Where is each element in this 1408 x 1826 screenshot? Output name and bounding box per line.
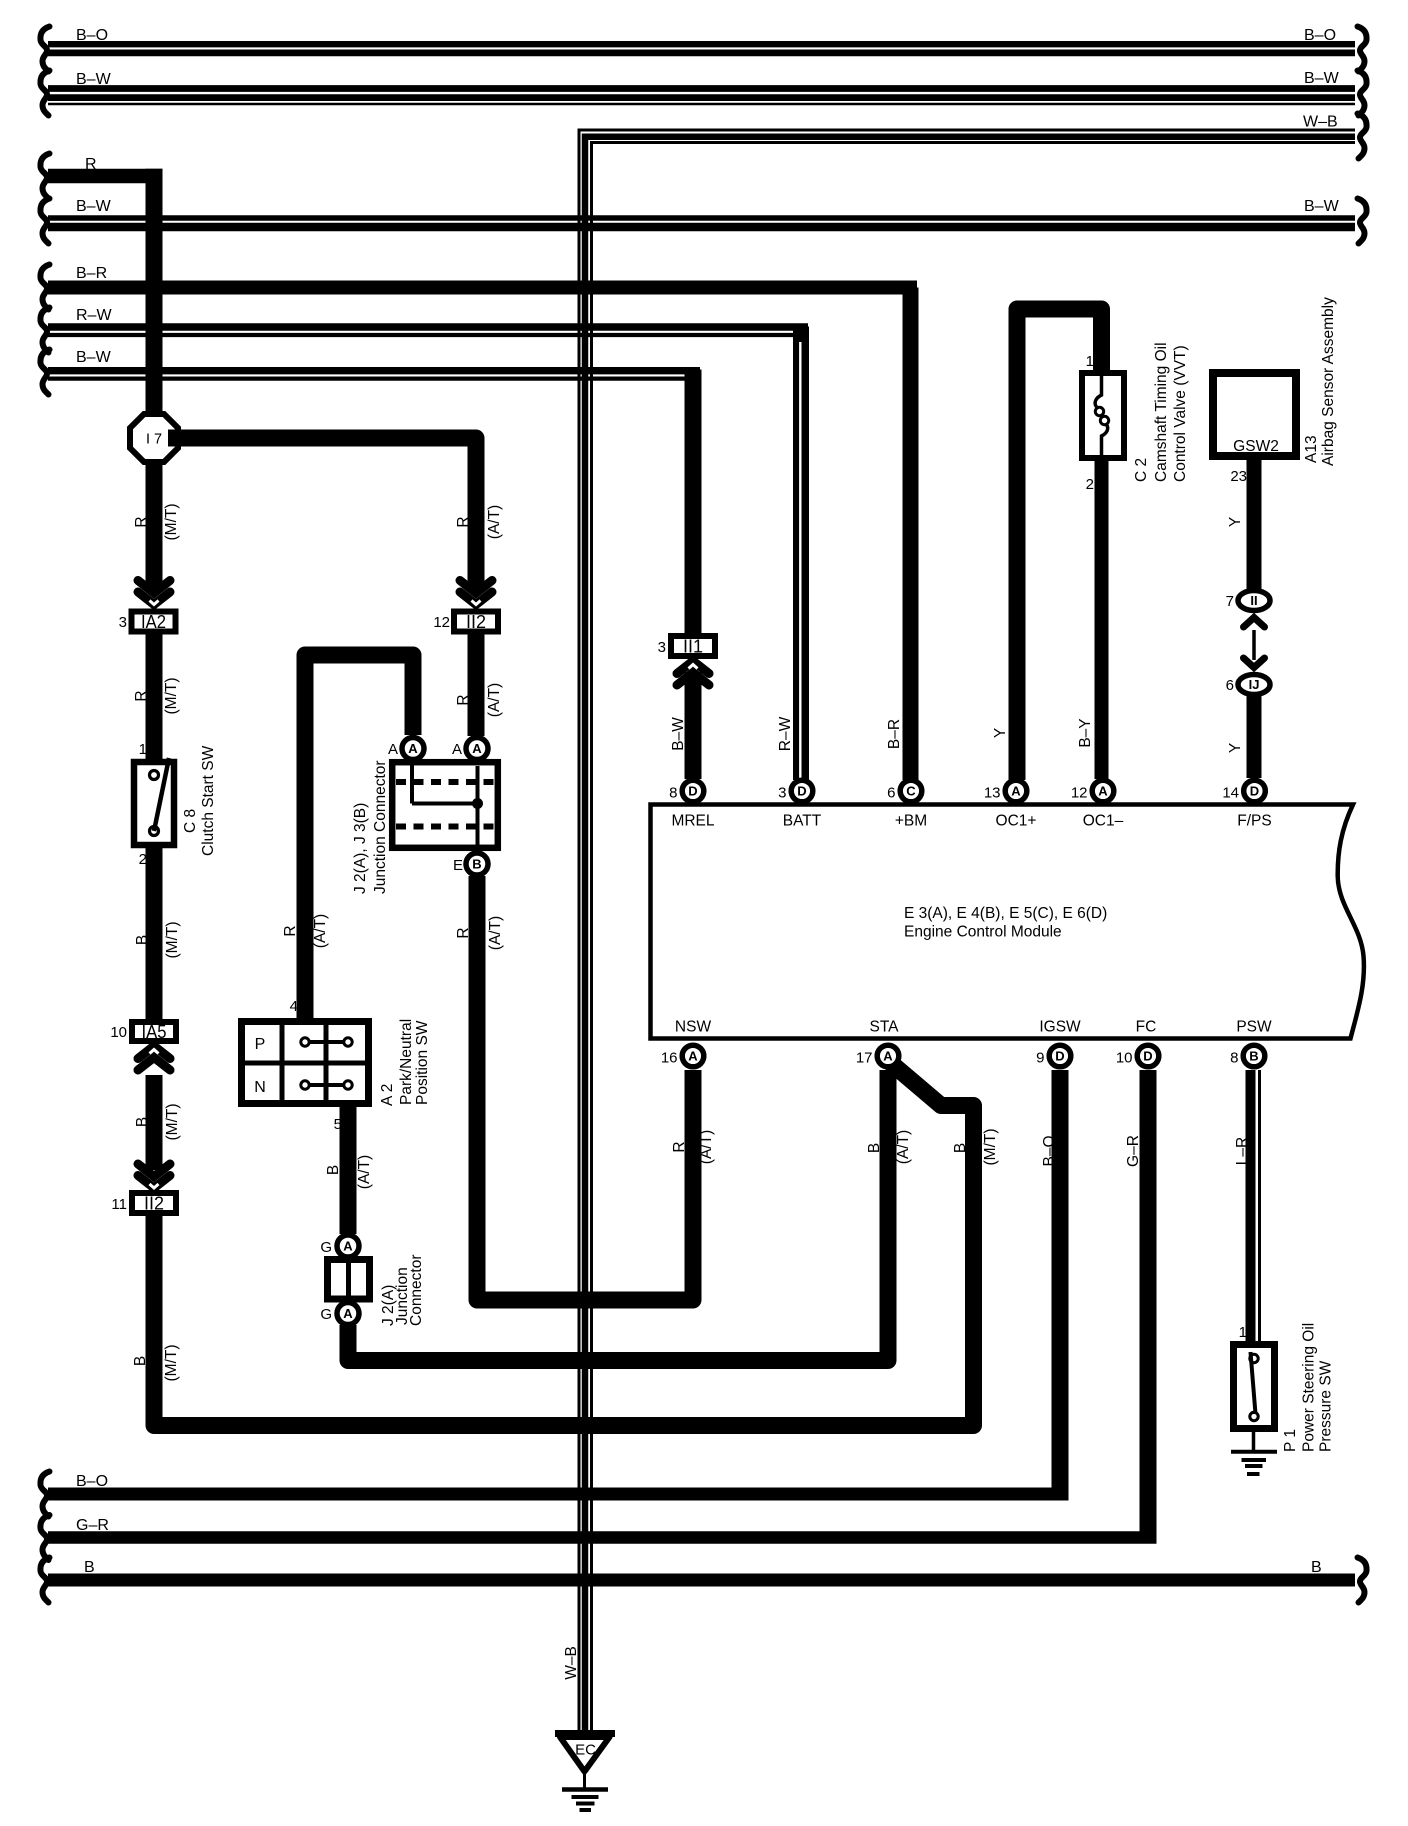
svg-text:(A/T): (A/T) bbox=[486, 505, 503, 539]
svg-text:10: 10 bbox=[110, 1024, 127, 1041]
node E(B) junction connector output bbox=[466, 853, 488, 875]
svg-text:D: D bbox=[1055, 1049, 1064, 1064]
svg-text:R: R bbox=[455, 516, 472, 527]
svg-text:23: 23 bbox=[1230, 468, 1247, 485]
svg-text:PSW: PSW bbox=[1236, 1019, 1272, 1036]
svg-text:G: G bbox=[320, 1306, 332, 1323]
svg-text:N: N bbox=[254, 1079, 266, 1096]
svg-text:12: 12 bbox=[433, 614, 450, 631]
connector arrows II to IJ bbox=[1244, 618, 1265, 668]
svg-text:+BM: +BM bbox=[895, 813, 927, 830]
svg-text:(M/T): (M/T) bbox=[164, 1103, 181, 1140]
wire B-R bus to ECM pin +BM bbox=[40, 265, 917, 781]
label Clutch Start SW bbox=[200, 745, 217, 856]
svg-text:G–R: G–R bbox=[76, 1517, 109, 1534]
switch C8 clutch start SW bbox=[134, 758, 174, 845]
svg-text:A13: A13 bbox=[1303, 435, 1320, 463]
svg-text:9: 9 bbox=[1036, 1050, 1044, 1067]
label 6 bbox=[1226, 677, 1234, 694]
label pin 1 (C8) bbox=[139, 741, 147, 758]
label pin 2 (C2) bbox=[1086, 476, 1094, 493]
svg-text:A: A bbox=[1098, 784, 1108, 799]
svg-text:IA2: IA2 bbox=[141, 612, 166, 632]
svg-text:(M/T): (M/T) bbox=[163, 503, 180, 540]
label A (right) bbox=[452, 741, 462, 758]
svg-text:B: B bbox=[132, 1356, 149, 1366]
wire B-W bus (top) bbox=[40, 70, 1366, 116]
svg-text:B–W: B–W bbox=[1304, 198, 1340, 215]
wire IA2 to clutch start switch (R M/T) bbox=[133, 635, 180, 763]
connector II2 (pin 12) bbox=[454, 612, 498, 633]
svg-text:E 3(A), E 4(B), E 5(C), E 6(D): E 3(A), E 4(B), E 5(C), E 6(D) bbox=[904, 905, 1107, 922]
label Airbag Sensor Assembly bbox=[1320, 297, 1337, 466]
svg-text:17: 17 bbox=[856, 1050, 873, 1067]
switch A2 park/neutral position SW bbox=[240, 1021, 370, 1104]
connector arrows into IA2 bbox=[138, 581, 170, 605]
svg-text:B: B bbox=[1249, 1049, 1258, 1064]
svg-text:OC1+: OC1+ bbox=[996, 813, 1037, 830]
label Pressure SW bbox=[1318, 1360, 1335, 1452]
svg-text:Clutch Start SW: Clutch Start SW bbox=[200, 745, 217, 856]
pin 12(A) OC1– bbox=[1071, 780, 1124, 829]
svg-text:R: R bbox=[133, 690, 150, 701]
svg-text:R: R bbox=[282, 925, 299, 936]
svg-text:1: 1 bbox=[1086, 353, 1094, 370]
svg-text:6: 6 bbox=[1226, 677, 1234, 694]
svg-text:3: 3 bbox=[119, 614, 127, 631]
wire B-O bus (top) bbox=[40, 27, 1366, 72]
svg-text:A: A bbox=[883, 1049, 893, 1064]
wire junction connector to ECM pin STA (B A/T) bbox=[348, 1070, 912, 1361]
wire W-B bus to EC ground bbox=[579, 114, 1367, 1734]
svg-text:B–W: B–W bbox=[670, 717, 687, 751]
node A left (junction connector J2/J3) bbox=[402, 738, 424, 760]
svg-text:MREL: MREL bbox=[671, 813, 714, 830]
svg-text:B–Y: B–Y bbox=[1077, 718, 1094, 747]
svg-text:11: 11 bbox=[111, 1196, 127, 1213]
pin 17(A) STA bbox=[856, 1019, 899, 1067]
svg-text:B: B bbox=[84, 1559, 95, 1576]
pin 16(A) NSW bbox=[661, 1019, 712, 1067]
svg-text:(A/T): (A/T) bbox=[895, 1130, 912, 1164]
svg-text:R: R bbox=[133, 516, 150, 527]
svg-text:D: D bbox=[797, 784, 806, 799]
label pin 1 (C2) bbox=[1086, 353, 1094, 370]
svg-text:B–R: B–R bbox=[76, 265, 107, 282]
svg-text:8: 8 bbox=[1230, 1050, 1238, 1067]
wire ECM pin IGSW to B-O bus bbox=[40, 1070, 1068, 1517]
svg-text:6: 6 bbox=[887, 785, 895, 802]
svg-text:B: B bbox=[952, 1143, 969, 1153]
label 3 bbox=[119, 614, 127, 631]
connector IA2 (pin 3) bbox=[132, 612, 176, 633]
svg-text:Position SW: Position SW bbox=[414, 1020, 431, 1105]
connector arrows into II2-12 bbox=[460, 581, 492, 605]
label Junction Connector (J2/J3) bbox=[372, 760, 389, 894]
connector IA5 (pin 10) bbox=[132, 1022, 176, 1042]
svg-text:10: 10 bbox=[1116, 1050, 1133, 1067]
svg-text:A: A bbox=[408, 741, 418, 756]
svg-text:EC: EC bbox=[575, 1742, 596, 1759]
svg-text:Y: Y bbox=[1227, 743, 1244, 753]
svg-text:R: R bbox=[671, 1141, 688, 1152]
svg-text:(A/T): (A/T) bbox=[487, 916, 504, 950]
pin 6(C) +BM bbox=[887, 780, 927, 829]
label Power Steering Oil bbox=[1301, 1323, 1318, 1452]
label E bbox=[453, 857, 463, 874]
svg-text:(A/T): (A/T) bbox=[698, 1130, 715, 1164]
svg-text:IJ: IJ bbox=[1249, 677, 1260, 692]
svg-text:(M/T): (M/T) bbox=[982, 1128, 999, 1165]
wire II2-11 to ECM pin STA (B M/T) bbox=[132, 1063, 999, 1426]
svg-text:(M/T): (M/T) bbox=[164, 921, 181, 958]
label C 8 bbox=[182, 809, 199, 833]
label C 2 bbox=[1133, 458, 1150, 482]
label pin 2 (C8) bbox=[139, 851, 147, 868]
junction connector J2(A) J3(B) bbox=[392, 762, 498, 848]
svg-text:C: C bbox=[906, 784, 916, 799]
svg-text:P 1: P 1 bbox=[1282, 1429, 1299, 1452]
pin 9(D) IGSW bbox=[1036, 1019, 1081, 1067]
svg-text:B: B bbox=[134, 1117, 151, 1127]
svg-text:OC1–: OC1– bbox=[1083, 813, 1124, 830]
svg-text:D: D bbox=[1143, 1049, 1152, 1064]
svg-text:1: 1 bbox=[1239, 1324, 1247, 1341]
svg-text:D: D bbox=[688, 784, 697, 799]
wire valve C2 pin 2 to ECM pin OC1- (B-Y) bbox=[1077, 458, 1102, 779]
svg-text:C 8: C 8 bbox=[182, 809, 199, 833]
label J 2(A) small bbox=[380, 1285, 397, 1326]
svg-text:(A/T): (A/T) bbox=[486, 683, 503, 717]
connector II2 (pin 11) bbox=[132, 1193, 176, 1214]
svg-text:W–B: W–B bbox=[1303, 114, 1338, 131]
svg-text:A: A bbox=[343, 1306, 353, 1321]
svg-text:BATT: BATT bbox=[783, 813, 822, 830]
svg-text:C 2: C 2 bbox=[1133, 458, 1150, 482]
label 3 (II1) bbox=[658, 639, 666, 656]
label 12 bbox=[433, 614, 450, 631]
svg-text:A: A bbox=[472, 741, 482, 756]
switch P1 power steering oil pressure SW bbox=[1234, 1345, 1275, 1429]
label J 2(A), J 3(B) bbox=[352, 803, 369, 894]
svg-text:A: A bbox=[1011, 784, 1021, 799]
pin 14(D) F/PS bbox=[1222, 780, 1271, 829]
label A13 bbox=[1303, 435, 1320, 463]
svg-text:B–O: B–O bbox=[76, 1473, 108, 1490]
svg-text:Airbag Sensor Assembly: Airbag Sensor Assembly bbox=[1320, 297, 1337, 466]
svg-text:G: G bbox=[320, 1239, 332, 1256]
label Park/Neutral Position SW bbox=[398, 1019, 431, 1105]
svg-text:(A/T): (A/T) bbox=[312, 914, 329, 948]
svg-text:D: D bbox=[1250, 784, 1259, 799]
svg-text:II: II bbox=[1250, 593, 1257, 608]
label 11 bbox=[111, 1196, 127, 1213]
svg-text:B–W: B–W bbox=[76, 198, 112, 215]
pin 3(D) BATT bbox=[778, 780, 822, 829]
svg-text:A: A bbox=[388, 741, 398, 758]
label A 2 bbox=[379, 1084, 396, 1106]
connector II1 (pin 3) bbox=[671, 636, 715, 657]
svg-text:STA: STA bbox=[870, 1019, 900, 1036]
box GSW2 A13 airbag sensor assembly bbox=[1213, 373, 1296, 456]
ground EC bbox=[555, 1734, 615, 1811]
svg-text:B: B bbox=[134, 935, 151, 945]
svg-text:II1: II1 bbox=[683, 637, 703, 657]
wire II1 to ECM pin MREL (B-W) bbox=[670, 672, 693, 779]
svg-text:(A/T): (A/T) bbox=[356, 1155, 373, 1189]
svg-text:B: B bbox=[866, 1143, 883, 1153]
wire A2 pin 5 to junction connector J2(A) (B A/T) bbox=[325, 1104, 373, 1234]
wire E(B) to ECM pin NSW (R A/T) bbox=[455, 876, 715, 1300]
label G (bottom) bbox=[320, 1306, 332, 1323]
svg-text:L–R: L–R bbox=[1234, 1137, 1251, 1165]
svg-text:A 2: A 2 bbox=[379, 1084, 396, 1106]
wire ECM pin OC1+ to valve C2 pin 1 (Y) bbox=[992, 309, 1102, 780]
wire R-W bus to ECM pin BATT bbox=[40, 307, 808, 780]
svg-text:J 2(A), J 3(B): J 2(A), J 3(B) bbox=[352, 803, 369, 894]
label 10 bbox=[110, 1024, 127, 1041]
svg-text:B–O: B–O bbox=[1041, 1135, 1058, 1166]
svg-text:(M/T): (M/T) bbox=[163, 677, 180, 714]
svg-text:Park/Neutral: Park/Neutral bbox=[398, 1019, 415, 1105]
svg-text:3: 3 bbox=[658, 639, 666, 656]
svg-text:II2: II2 bbox=[144, 1194, 164, 1214]
pin 8(B) PSW bbox=[1230, 1019, 1272, 1067]
svg-text:B–O: B–O bbox=[1304, 27, 1336, 44]
wire park/neutral SW pin 4 to junction connector pin A (R A/T) bbox=[282, 655, 413, 1020]
svg-text:FC: FC bbox=[1136, 1019, 1157, 1036]
svg-text:P: P bbox=[255, 1036, 266, 1053]
connector arrows IA5 to II2-11 (B M/T) bbox=[134, 1046, 181, 1188]
label G (top) bbox=[320, 1239, 332, 1256]
svg-text:Junction Connector: Junction Connector bbox=[372, 760, 389, 894]
node I7 (octagon junction) bbox=[130, 414, 178, 462]
svg-text:A: A bbox=[688, 1049, 698, 1064]
label Camshaft Timing Oil bbox=[1153, 342, 1170, 482]
svg-text:14: 14 bbox=[1222, 785, 1239, 802]
node G(A) bottom of small junction connector bbox=[337, 1303, 359, 1325]
svg-text:NSW: NSW bbox=[675, 1019, 712, 1036]
label W-B (vertical run) bbox=[563, 1646, 580, 1680]
wire B bus (bottom) bbox=[40, 1558, 1366, 1603]
svg-text:Y: Y bbox=[992, 728, 1009, 738]
wire B-W bus (second) bbox=[40, 198, 1366, 244]
node A right (junction connector J2/J3) bbox=[466, 738, 488, 760]
svg-text:G–R: G–R bbox=[1125, 1135, 1142, 1167]
label R-W (BATT wire) bbox=[777, 716, 794, 751]
wire GSW2 to connector II (Y) bbox=[1227, 458, 1254, 591]
wire B-W bus (third) to connector II1 bbox=[40, 349, 700, 635]
wire R bus feed to node I7 bbox=[40, 154, 162, 417]
svg-text:7: 7 bbox=[1226, 593, 1234, 610]
svg-text:GSW2: GSW2 bbox=[1233, 438, 1279, 455]
pin 8(D) MREL bbox=[669, 780, 715, 829]
solenoid C2 camshaft timing oil control valve (VVT) bbox=[1082, 373, 1124, 458]
wire ECM pin FC to G-R bus bbox=[40, 1070, 1156, 1560]
label Junction Connector (small) bbox=[394, 1254, 425, 1326]
wire C8 to connector IA5 (B M/T) bbox=[134, 845, 181, 1021]
pin 13(A) OC1+ bbox=[984, 780, 1037, 829]
wire I7 to connector II2-12 (R A/T) bbox=[168, 438, 503, 592]
connector IJ (pin 6) oval bbox=[1238, 675, 1270, 695]
svg-text:(M/T): (M/T) bbox=[163, 1344, 180, 1381]
svg-text:R–W: R–W bbox=[777, 716, 794, 751]
label pin 1 (P1) bbox=[1239, 1324, 1247, 1341]
svg-text:A: A bbox=[343, 1239, 353, 1254]
svg-text:Y: Y bbox=[1227, 517, 1244, 527]
node G(A) top of small junction connector bbox=[337, 1235, 359, 1257]
svg-text:F/PS: F/PS bbox=[1237, 813, 1271, 830]
svg-text:I 7: I 7 bbox=[146, 432, 162, 448]
svg-text:2: 2 bbox=[1086, 476, 1094, 493]
svg-text:Power Steering Oil: Power Steering Oil bbox=[1301, 1323, 1318, 1452]
svg-text:12: 12 bbox=[1071, 785, 1088, 802]
wire II2-12 to junction connector pin A (R A/T) bbox=[455, 635, 503, 737]
svg-text:B–R: B–R bbox=[886, 719, 903, 749]
svg-text:B: B bbox=[325, 1165, 342, 1175]
svg-text:3: 3 bbox=[778, 785, 786, 802]
svg-text:IGSW: IGSW bbox=[1039, 1019, 1081, 1036]
label pin 23 (A13) bbox=[1230, 468, 1247, 485]
svg-text:B–W: B–W bbox=[1304, 70, 1340, 87]
junction connector J2(A) small bbox=[328, 1258, 370, 1300]
svg-text:B: B bbox=[472, 857, 481, 872]
svg-text:Pressure SW: Pressure SW bbox=[1318, 1360, 1335, 1452]
connector arrows into II1 bbox=[677, 661, 709, 685]
svg-text:B–W: B–W bbox=[76, 71, 112, 88]
svg-text:16: 16 bbox=[661, 1050, 678, 1067]
svg-text:4: 4 bbox=[290, 998, 298, 1015]
svg-text:Control Valve (VVT): Control Valve (VVT) bbox=[1172, 345, 1189, 482]
ground (P1) bbox=[1231, 1428, 1277, 1474]
svg-text:R: R bbox=[85, 156, 97, 173]
svg-text:B–O: B–O bbox=[76, 27, 108, 44]
svg-text:E: E bbox=[453, 857, 463, 874]
svg-text:IA5: IA5 bbox=[142, 1022, 167, 1042]
wire IJ to ECM pin F/PS (Y) bbox=[1227, 694, 1254, 778]
svg-text:A: A bbox=[452, 741, 462, 758]
pin 10(D) FC bbox=[1116, 1019, 1159, 1067]
svg-text:II2: II2 bbox=[466, 612, 486, 632]
svg-text:R: R bbox=[455, 927, 472, 938]
connector II (pin 7) oval bbox=[1238, 591, 1270, 611]
svg-text:R–W: R–W bbox=[76, 307, 112, 324]
label P 1 bbox=[1282, 1429, 1299, 1452]
svg-text:Connector: Connector bbox=[408, 1254, 425, 1326]
svg-text:13: 13 bbox=[984, 785, 1001, 802]
label B-R (+BM wire) bbox=[886, 719, 903, 749]
svg-text:W–B: W–B bbox=[563, 1646, 580, 1680]
IC engine control module E3(A) E4(B) E5(C) E6(D) bbox=[651, 805, 1364, 1039]
svg-text:1: 1 bbox=[139, 741, 147, 758]
svg-text:R: R bbox=[455, 694, 472, 705]
wire ECM pin PSW to P1 switch (L-R) bbox=[1234, 1070, 1260, 1344]
label pin 4 (A2) bbox=[290, 998, 298, 1015]
svg-text:Camshaft Timing Oil: Camshaft Timing Oil bbox=[1153, 342, 1170, 482]
svg-text:Engine Control Module: Engine Control Module bbox=[904, 924, 1062, 941]
label Control Valve (VVT) bbox=[1172, 345, 1189, 482]
label A (left) bbox=[388, 741, 398, 758]
svg-text:B: B bbox=[1311, 1559, 1322, 1576]
wire I7 to connector IA2 (R M/T) bbox=[133, 460, 180, 592]
svg-text:8: 8 bbox=[669, 785, 677, 802]
label 7 bbox=[1226, 593, 1234, 610]
label pin 5 (A2) bbox=[334, 1116, 342, 1133]
svg-text:B–W: B–W bbox=[76, 349, 112, 366]
